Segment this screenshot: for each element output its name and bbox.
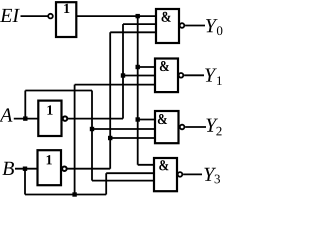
gate G1 output bubble	[179, 73, 184, 78]
wire B left vertical bus	[74, 85, 76, 195]
wire NOT-A to G0 input	[123, 23, 156, 25]
wire A input	[14, 118, 39, 120]
wire E to G3 input	[138, 164, 154, 166]
node Y1 label	[205, 69, 217, 82]
wire E output of U1 to gate G0	[76, 15, 156, 17]
AND gate G1 box	[155, 59, 178, 93]
node Y3 label	[204, 168, 216, 181]
wire B to G3 input	[106, 172, 154, 174]
AND gate G0 box	[156, 9, 179, 43]
wire B branch down	[24, 169, 26, 195]
junction A tap	[23, 116, 27, 120]
gate G2 output bubble	[180, 125, 185, 130]
junction E bus tap	[136, 14, 140, 18]
label ampersand of G0	[162, 12, 171, 22]
junction B bottom tap	[72, 192, 76, 196]
label 1 of U2	[47, 105, 52, 114]
AND gate G3 box	[154, 158, 177, 191]
label subscript 1	[217, 76, 222, 85]
wire Y0 output	[185, 25, 205, 27]
junction B tap	[23, 167, 27, 171]
junction E to G1	[136, 65, 140, 69]
inverter U2 output bubble	[63, 116, 68, 121]
inverter U1 input bubble	[48, 14, 53, 19]
inverter U1 EI buffer box	[56, 2, 76, 37]
wire A branch top horizontal	[25, 90, 92, 92]
gate G0 output bubble	[180, 23, 185, 28]
wire B bottom horizontal	[25, 194, 106, 196]
wire Y3 output	[183, 173, 202, 175]
wire NOT-B vertical bus	[109, 32, 111, 168]
junction A to G2	[90, 127, 94, 131]
wire E to G1 input	[138, 66, 155, 68]
inverter U3 output bubble	[62, 166, 67, 171]
wire NOT-B to G0 input	[110, 31, 156, 33]
wire A branch up	[24, 91, 26, 119]
label ampersand of G1	[160, 61, 169, 71]
wire NOT-A from U2	[67, 118, 123, 120]
junction NOT-A to G1	[121, 73, 125, 77]
wire B to G1 input	[75, 84, 155, 86]
wire B input	[15, 168, 38, 170]
label subscript 2	[216, 127, 221, 136]
node EI input label	[0, 9, 20, 22]
wire E to G2 input	[138, 119, 155, 121]
label ampersand of G3	[159, 160, 168, 170]
wire A to G3 input	[92, 180, 154, 182]
node Y0 label	[206, 19, 218, 32]
wire EI input	[21, 15, 49, 17]
gate G3 output bubble	[178, 172, 183, 177]
wire NOT-B to G2 input	[110, 137, 155, 139]
node B input label	[2, 162, 14, 175]
label subscript 0	[217, 26, 223, 35]
wire B right vertical bus	[105, 173, 107, 194]
node A input label	[0, 108, 12, 121]
wire Y1 output	[184, 74, 204, 76]
label 1 of U1	[64, 4, 69, 13]
wire Y2 output	[185, 126, 206, 128]
wire A to G2 input	[92, 128, 155, 130]
wire NOT-B from U3	[66, 168, 110, 170]
inverter U2 A inverter box	[38, 101, 61, 136]
wire A vertical bus	[91, 91, 93, 181]
label ampersand of G2	[158, 114, 167, 124]
wire NOT-A vertical bus	[122, 24, 124, 119]
node Y2 label	[206, 119, 218, 132]
inverter U3 B inverter box	[38, 150, 62, 185]
junction NOT-B to G2	[108, 136, 112, 140]
wire E vertical bus	[137, 16, 139, 165]
AND gate G2 box	[155, 111, 179, 143]
junction E to G2	[136, 117, 140, 121]
wire NOT-A to G1 input	[123, 75, 155, 77]
label 1 of U3	[47, 155, 52, 164]
label subscript 3	[215, 175, 220, 184]
